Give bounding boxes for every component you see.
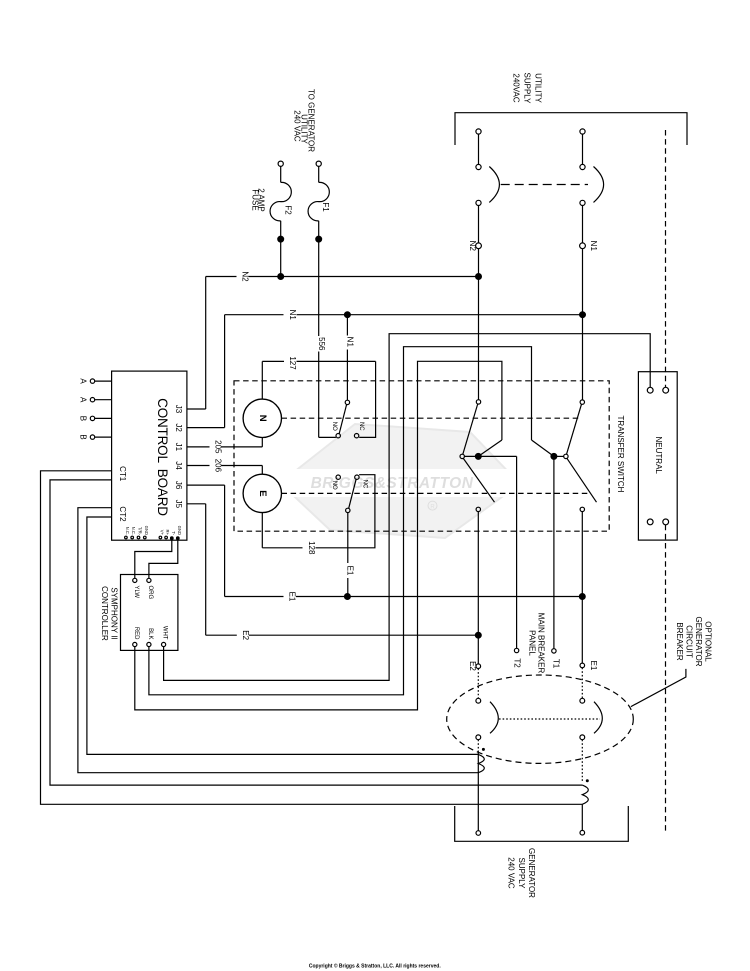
control board box [112, 371, 187, 540]
transfer switch pole 1 utility contact [476, 400, 480, 404]
svg-text:SUPPLY: SUPPLY [517, 858, 526, 890]
svg-text:E2: E2 [241, 630, 250, 640]
svg-text:R: R [430, 504, 435, 510]
svg-text:205: 205 [213, 440, 222, 454]
label 2 amp fuse [250, 188, 265, 212]
svg-text:E2: E2 [468, 661, 477, 671]
svg-text:GENERATOR: GENERATOR [527, 848, 536, 898]
junction N2 column [476, 274, 482, 280]
fuse F2 terminal [278, 161, 283, 166]
svg-text:TRANSFER SWITCH: TRANSFER SWITCH [616, 416, 625, 493]
transfer switch pole 2 generator contact [580, 507, 584, 511]
pin WHT [162, 642, 166, 646]
svg-text:128: 128 [307, 541, 316, 555]
wire CT2-a [78, 508, 478, 773]
wire N1 column down to transfer switch [582, 248, 584, 400]
transfer switch pole 1 generator contact [476, 507, 480, 511]
wire RED to transfer switch T2 junction [135, 361, 502, 710]
relay E blade [349, 479, 356, 508]
fuse F1 [318, 166, 320, 182]
utility breaker pole 1 arc [489, 167, 499, 203]
wire T1 to main breaker panel [553, 456, 555, 648]
fuse F2 [280, 166, 282, 182]
wire F2 to N2 [280, 239, 282, 276]
CT1 polarity dot [586, 779, 589, 782]
svg-text:N.C.: N.C. [125, 527, 130, 535]
transfer switch pole 1 blade engaged [463, 404, 478, 454]
transfer switch pole 1 open blade [463, 458, 494, 502]
svg-text:R+: R+ [165, 530, 170, 536]
svg-text:CT1: CT1 [118, 466, 127, 482]
relay coil E [243, 474, 281, 512]
svg-text:YLW: YLW [133, 586, 139, 599]
svg-text:240 VAC: 240 VAC [507, 857, 516, 889]
dashed neutral conductor lower [665, 525, 667, 833]
relay N blade [339, 405, 346, 434]
wire N2 to J3 [205, 277, 207, 410]
svg-text:UTILITY: UTILITY [533, 73, 542, 103]
svg-text:N: N [257, 415, 268, 422]
transfer switch pole 2 open blade [567, 458, 597, 502]
terminal A1 [90, 379, 94, 383]
utility breaker pole 1 terminals [476, 129, 481, 134]
wire CT2-b [87, 517, 478, 754]
svg-text:N.C.: N.C. [131, 527, 136, 535]
transfer switch pole 1 pivot [460, 454, 464, 458]
wire CT1-b [50, 480, 582, 785]
wire 556 from F1 down to relay NO [318, 239, 320, 336]
label main breaker panel [527, 613, 545, 674]
junction below F1 [316, 236, 322, 242]
breaker tie bar (dashed) [501, 184, 588, 186]
CT2 polarity dot [482, 748, 485, 751]
svg-text:T2: T2 [512, 658, 521, 668]
svg-text:F1: F1 [321, 202, 330, 212]
svg-text:NEUTRAL: NEUTRAL [654, 437, 663, 475]
svg-text:556: 556 [317, 337, 326, 351]
wire N1 net horizontal [225, 314, 284, 316]
CT1 winding on E1 [582, 785, 588, 804]
wire J6 corner handled above [224, 485, 226, 596]
svg-text:CONTROLLER: CONTROLLER [100, 586, 109, 641]
svg-text:CIRCUIT: CIRCUIT [685, 625, 694, 658]
wire E1 from relay E pivot [347, 513, 349, 563]
svg-text:BREAKER: BREAKER [675, 622, 684, 660]
optional generator breaker dashed ellipse [447, 675, 634, 763]
svg-text:E1: E1 [346, 566, 355, 576]
junction E1 relay [345, 594, 351, 600]
wire N2 column down to transfer switch [478, 248, 480, 399]
wire E1 conductor [581, 512, 583, 663]
relay N contact NC [354, 434, 358, 438]
svg-text:E1: E1 [288, 592, 297, 602]
wire E2 conductor [477, 512, 479, 664]
svg-text:NO: NO [331, 422, 337, 431]
label utility supply 240vac [512, 73, 543, 105]
svg-text:J4: J4 [174, 461, 183, 470]
junction N2/F2 [278, 274, 284, 280]
dashed neutral conductor upper [665, 130, 667, 387]
transfer switch pole 2 utility contact [580, 400, 584, 404]
wire 128 E coil to NC contact [316, 475, 375, 548]
svg-text:J3: J3 [174, 405, 183, 414]
svg-text:CT2: CT2 [118, 506, 127, 522]
wire 127 N coil to NC contact [261, 361, 263, 399]
wire GND pin to ORG [149, 539, 178, 578]
svg-text:NC: NC [362, 480, 368, 489]
svg-text:SUPPLY: SUPPLY [523, 73, 532, 105]
terminal B1 [90, 416, 94, 420]
generator breaker pole E1 [580, 698, 585, 703]
svg-text:Copyright © Briggs & Stratton,: Copyright © Briggs & Stratton, LLC. All … [309, 962, 441, 969]
watermark briggs-stratton logo [268, 424, 524, 538]
wire WHT to neutral [164, 334, 651, 681]
pin YLW [133, 578, 137, 582]
label generator supply 240 vac [507, 848, 537, 898]
symphony II controller box [121, 575, 178, 651]
junction below F2 [278, 236, 284, 242]
svg-text:N1: N1 [288, 310, 297, 321]
svg-text:206: 206 [213, 459, 222, 473]
neutral terminal top-right [663, 387, 669, 393]
svg-text:N1: N1 [345, 337, 354, 348]
generator terminal E2 [476, 831, 481, 836]
utility breaker pole 2 arc [594, 167, 604, 203]
svg-text:GND: GND [144, 526, 149, 535]
utility supply bracket [455, 113, 687, 145]
svg-text:240VAC: 240VAC [512, 73, 521, 102]
svg-text:B: B [78, 416, 87, 421]
svg-text:PANEL: PANEL [527, 630, 536, 656]
utility breaker pole 2 terminals [580, 129, 585, 134]
svg-text:E: E [257, 490, 268, 496]
svg-text:NO: NO [331, 481, 337, 490]
node N1 connector [582, 206, 584, 244]
svg-text:MAIN BREAKER: MAIN BREAKER [537, 613, 546, 674]
svg-text:N2: N2 [468, 241, 477, 252]
pin BLK [147, 642, 151, 646]
svg-text:127: 127 [288, 356, 297, 370]
junction T2 [475, 454, 481, 460]
junction E2 column [475, 632, 481, 638]
svg-text:J1: J1 [174, 443, 183, 452]
junction T1 [551, 454, 557, 460]
svg-text:CONTROL BOARD: CONTROL BOARD [155, 398, 170, 516]
generator terminal E1 [580, 830, 585, 835]
pointer line to ellipse [631, 669, 686, 707]
svg-text:A: A [78, 378, 87, 384]
neutral terminal bottom-right [663, 519, 669, 525]
junction N1 column [580, 312, 586, 318]
svg-text:FUSE: FUSE [250, 189, 259, 210]
wire N2 net horizontal [206, 276, 237, 278]
transfer switch pole 1 output wire [464, 455, 516, 457]
svg-text:B: B [78, 434, 87, 439]
neutral block [638, 372, 677, 540]
svg-text:240 VAC: 240 VAC [293, 110, 302, 142]
svg-text:J5: J5 [174, 500, 183, 509]
svg-text:ORG: ORG [147, 586, 153, 600]
svg-text:OPTIONAL: OPTIONAL [704, 621, 713, 662]
wire CT1-a [41, 471, 583, 805]
junction E1 column [579, 594, 585, 600]
svg-text:SYMPHONY II: SYMPHONY II [110, 587, 119, 639]
svg-text:GENERATOR: GENERATOR [694, 617, 703, 667]
svg-text:V+: V+ [159, 530, 164, 536]
fuse F1 terminal [316, 161, 321, 166]
wire T- pin to YLW [135, 539, 172, 578]
svg-text:GND: GND [177, 526, 182, 535]
generator breaker tie (dotted) [499, 718, 600, 720]
svg-text:T1: T1 [552, 659, 561, 669]
actuator dashed link E [282, 492, 592, 494]
pin RED [133, 642, 137, 646]
wire N1 drop to relay pivot [346, 315, 348, 336]
junction N1 drop [345, 312, 351, 318]
neutral terminal bottom-left [647, 519, 653, 525]
svg-text:N1: N1 [589, 241, 598, 252]
transfer switch pole 2 blade engaged [567, 404, 582, 454]
control board bottom pins group1 [125, 536, 128, 539]
neutral terminal top-left [647, 387, 653, 393]
svg-text:T/R-: T/R- [138, 527, 143, 536]
actuator dashed link N [282, 417, 581, 419]
wire N1 to J2 [224, 315, 226, 428]
terminal B2 [90, 435, 94, 439]
wire T2 to main breaker panel [516, 456, 518, 648]
node N2 connector [478, 206, 480, 244]
relay E contact NC [355, 475, 359, 479]
svg-text:J6: J6 [174, 481, 183, 490]
svg-text:N2: N2 [240, 271, 249, 282]
svg-text:F2: F2 [284, 205, 293, 215]
CT2 winding on E2 [477, 753, 479, 831]
transfer switch pole 2 pivot [564, 454, 568, 458]
relay N common pivot [345, 400, 349, 404]
wire E2 net horizontal [205, 504, 207, 635]
terminal A2 [90, 398, 94, 402]
relay and transfer dashed enclosure [234, 381, 609, 531]
control board bottom pins group2 [159, 536, 162, 539]
transfer switch pole 2 output wire [554, 455, 564, 457]
pin ORG [147, 578, 151, 582]
svg-text:E1: E1 [589, 661, 598, 671]
relay coil N [243, 399, 281, 437]
svg-text:NC: NC [358, 422, 364, 431]
generator breaker pole E2 [476, 698, 481, 703]
svg-text:T-: T- [171, 531, 176, 535]
label to generator utility 240 vac [293, 89, 316, 152]
svg-text:BLK: BLK [147, 628, 153, 639]
relay E contact NO [336, 475, 340, 479]
wire BLK to transfer switch T1 junction [149, 347, 532, 695]
relay N contact NO [336, 434, 340, 438]
svg-text:J2: J2 [174, 423, 183, 432]
generator supply bracket [455, 806, 629, 841]
svg-text:RED: RED [133, 627, 139, 640]
svg-text:A: A [78, 397, 87, 403]
relay E common pivot [346, 508, 350, 512]
svg-text:WHT: WHT [162, 626, 168, 640]
label optional generator circuit breaker [675, 617, 713, 667]
wire E1 net horizontal [225, 596, 284, 598]
